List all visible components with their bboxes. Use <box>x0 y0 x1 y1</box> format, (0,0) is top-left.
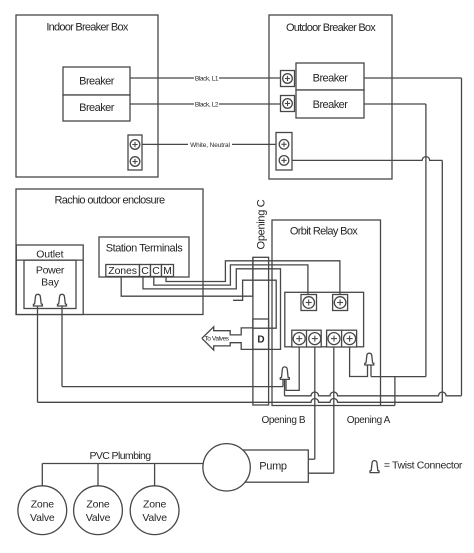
svg-text:To Valves: To Valves <box>204 335 229 342</box>
svg-text:C: C <box>141 265 149 277</box>
svg-text:Breaker: Breaker <box>79 102 115 114</box>
svg-text:Zone: Zone <box>86 499 109 511</box>
svg-text:White, Neutral: White, Neutral <box>190 142 230 149</box>
svg-text:Opening C: Opening C <box>256 199 268 249</box>
svg-text:Breaker: Breaker <box>313 73 349 85</box>
svg-text:Orbit Relay Box: Orbit Relay Box <box>290 226 358 238</box>
svg-text:Outdoor Breaker Box: Outdoor Breaker Box <box>286 22 376 34</box>
svg-text:Zone: Zone <box>143 499 166 511</box>
svg-text:Black, L2: Black, L2 <box>195 102 219 109</box>
svg-text:Breaker: Breaker <box>79 76 115 88</box>
svg-text:Zone: Zone <box>31 499 54 511</box>
svg-text:Station Terminals: Station Terminals <box>106 242 183 254</box>
svg-text:Bay: Bay <box>41 276 60 288</box>
svg-text:PVC Plumbing: PVC Plumbing <box>89 450 151 462</box>
svg-text:Power: Power <box>36 265 65 277</box>
svg-text:Black, L1: Black, L1 <box>195 76 219 83</box>
svg-text:Valve: Valve <box>86 512 111 524</box>
svg-text:Opening A: Opening A <box>347 415 391 426</box>
svg-text:Valve: Valve <box>142 512 167 524</box>
svg-text:Valve: Valve <box>30 512 55 524</box>
svg-text:= Twist Connector: = Twist Connector <box>384 459 463 471</box>
svg-text:Zones: Zones <box>108 265 137 277</box>
svg-text:M: M <box>163 265 172 277</box>
svg-text:Outlet: Outlet <box>36 248 63 260</box>
svg-text:Pump: Pump <box>259 461 287 473</box>
svg-text:Indoor Breaker Box: Indoor Breaker Box <box>46 21 129 33</box>
svg-text:Rachio outdoor enclosure: Rachio outdoor enclosure <box>55 194 166 206</box>
svg-text:Breaker: Breaker <box>313 99 349 111</box>
svg-text:D: D <box>257 334 264 345</box>
svg-text:C: C <box>152 265 160 277</box>
svg-text:Opening B: Opening B <box>261 415 305 426</box>
